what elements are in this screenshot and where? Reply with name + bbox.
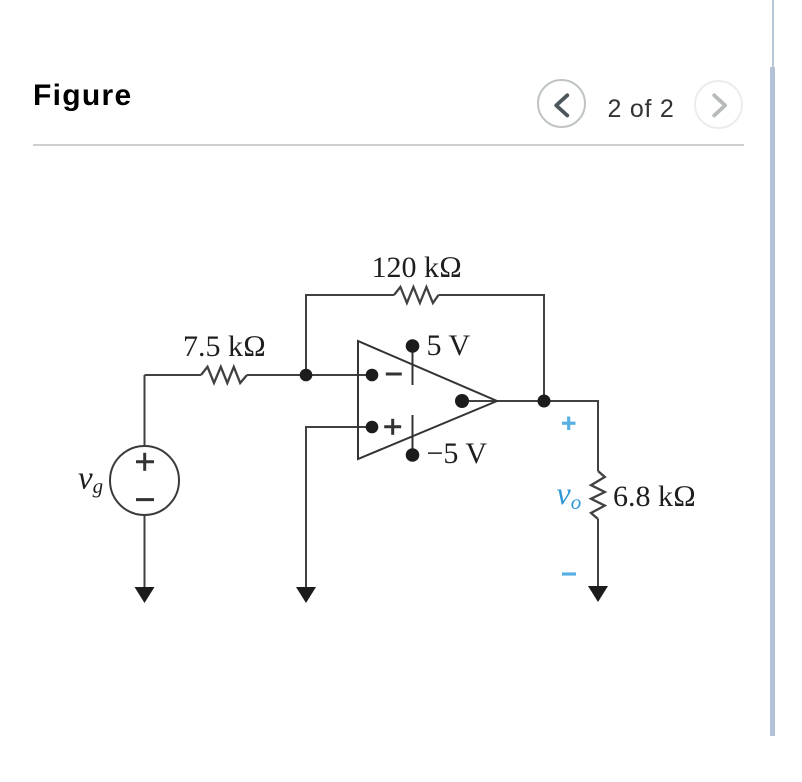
svg-text:6.8 kΩ: 6.8 kΩ [613,480,696,513]
svg-text:5 V: 5 V [427,329,471,362]
svg-text:120 kΩ: 120 kΩ [372,251,463,284]
svg-text:7.5 kΩ: 7.5 kΩ [183,330,266,363]
svg-text:vg: vg [78,461,103,499]
svg-text:−5 V: −5 V [427,437,488,470]
svg-text:vo: vo [557,475,582,514]
